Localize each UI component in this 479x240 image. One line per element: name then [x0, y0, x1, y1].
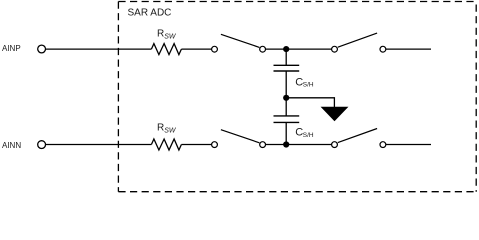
svg-text:AINN: AINN [2, 141, 21, 150]
svg-text:SAR ADC: SAR ADC [128, 8, 172, 19]
svg-text:AINP: AINP [2, 44, 21, 53]
